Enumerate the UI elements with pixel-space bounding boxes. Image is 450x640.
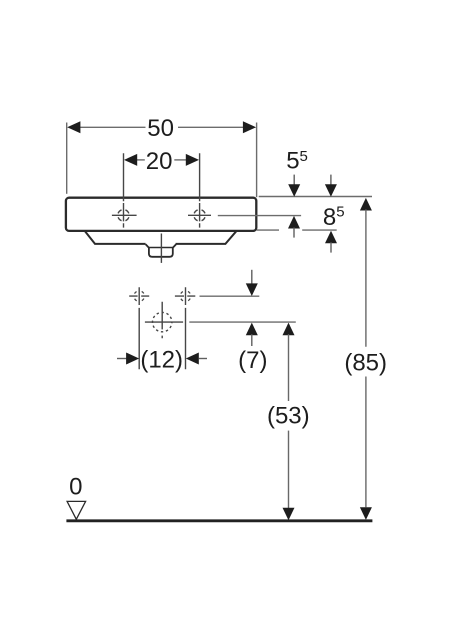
fixing hole right dashed circle <box>181 291 190 300</box>
drain hole dashed circle <box>153 312 172 331</box>
svg-text:8: 8 <box>323 204 336 231</box>
dimension 85 up arrow <box>360 198 372 211</box>
dimension 20 arrow left <box>124 154 137 166</box>
dimension 50 extension line left <box>66 123 68 194</box>
rim level extension line <box>259 196 372 198</box>
svg-text:5: 5 <box>336 203 344 220</box>
dimension 50 line <box>80 126 146 128</box>
drain hole centreline horizontal <box>145 321 183 323</box>
fixing hole left centreline vertical <box>138 287 140 369</box>
dimension 20 line <box>137 159 145 161</box>
dimension 50 extension line right <box>256 123 258 198</box>
tap hole right centreline vertical <box>199 153 201 227</box>
dimension 7 down arrow <box>251 270 253 284</box>
fixing hole left centreline horizontal <box>129 295 149 297</box>
dimension 53 line upper <box>288 334 290 401</box>
drain centre line vertical <box>160 234 162 263</box>
drain outlet fitting <box>146 244 177 257</box>
tap hole left dashed circle <box>118 210 129 221</box>
svg-text:(53): (53) <box>267 403 310 430</box>
dimension 7 up arrow <box>246 323 258 336</box>
drain hole level extension line <box>189 321 295 323</box>
dimension 12 arrow left <box>117 358 127 360</box>
svg-text:20: 20 <box>146 148 173 175</box>
dimension 85 line upper <box>365 210 367 347</box>
drain hole centreline vertical <box>161 302 163 339</box>
dimension 53 down arrow <box>283 508 295 521</box>
basin bottom extension line <box>257 229 279 231</box>
dimension 85 line lower <box>365 377 367 508</box>
tap hole level extension line <box>218 215 301 217</box>
svg-text:(12): (12) <box>140 347 183 374</box>
dimension 85 down arrow <box>360 507 372 520</box>
tap hole right dashed circle <box>194 210 205 221</box>
tap hole right centreline horizontal <box>188 214 211 216</box>
svg-text:(7): (7) <box>238 347 267 374</box>
tap hole left centreline horizontal <box>112 214 137 216</box>
svg-text:50: 50 <box>147 115 174 142</box>
dimension 12 arrow right <box>186 353 199 365</box>
fixing hole right centreline horizontal <box>175 295 195 297</box>
dimension 50 arrow left <box>67 121 80 133</box>
dimension 85b up arrow <box>325 231 337 244</box>
dimension 50 arrow right <box>243 121 256 133</box>
dimension 85 bottom extension line <box>302 229 337 231</box>
dimension 53 line lower <box>288 431 290 508</box>
tap hole left centreline vertical <box>123 153 125 227</box>
dimension 55 down arrow <box>293 175 295 185</box>
fixing hole right centreline vertical <box>185 287 187 369</box>
dimension 55 up arrow <box>288 216 300 229</box>
fixing hole level extension line <box>200 295 260 297</box>
svg-text:(85): (85) <box>344 349 387 376</box>
washbasin bowl outline <box>85 231 236 244</box>
washbasin body outline <box>66 198 256 231</box>
dimension 53 up arrow <box>283 323 295 336</box>
dimension 20 arrow right <box>186 154 199 166</box>
fixing hole left dashed circle <box>135 291 144 300</box>
svg-text:5: 5 <box>300 148 308 165</box>
svg-text:0: 0 <box>69 473 82 500</box>
floor line <box>66 519 372 522</box>
zero level triangle symbol <box>67 501 86 519</box>
dimension 85b down arrow <box>330 175 332 185</box>
drain outlet lip line <box>149 247 173 249</box>
svg-text:5: 5 <box>286 148 299 175</box>
